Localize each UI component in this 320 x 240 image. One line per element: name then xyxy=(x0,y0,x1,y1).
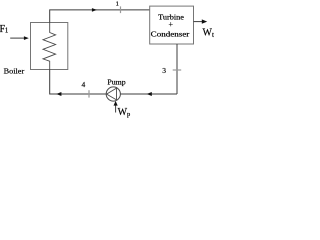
resistor heating coil in boiler xyxy=(43,23,56,70)
boiler box xyxy=(31,23,68,70)
wire boiler outlet riser to turbine (stream 1) xyxy=(50,10,150,23)
svg-text:Pump: Pump xyxy=(107,77,126,86)
arrowhead Wp up xyxy=(114,101,118,106)
svg-text:+: + xyxy=(169,20,174,29)
svg-text:Boiler: Boiler xyxy=(4,66,25,75)
wire pump work input Wp xyxy=(115,104,117,112)
svg-text:1: 1 xyxy=(116,0,119,7)
arrowhead stream 4 xyxy=(56,92,61,96)
tick node 1 xyxy=(120,6,122,13)
tick node 4 xyxy=(88,90,90,97)
wire turbine work output xyxy=(194,21,204,23)
arrowhead into pump xyxy=(147,92,152,96)
wire pump to boiler (stream 4) xyxy=(50,70,106,95)
tick node 3 xyxy=(173,69,182,71)
wire bottom right to pump xyxy=(120,93,177,95)
pump impeller triangle xyxy=(107,88,117,100)
pump P1 xyxy=(106,87,120,101)
svg-text:3: 3 xyxy=(162,66,166,75)
turbine + condenser box U1 xyxy=(150,6,194,44)
svg-text:4: 4 xyxy=(82,80,86,89)
wire condenser outlet down (stream 3) xyxy=(176,44,178,94)
arrowhead Wt xyxy=(202,19,207,23)
wire F1 feed arrow into boiler xyxy=(10,37,25,39)
svg-text:Condenser: Condenser xyxy=(151,31,190,39)
arrowhead on stream 1 xyxy=(92,8,97,12)
